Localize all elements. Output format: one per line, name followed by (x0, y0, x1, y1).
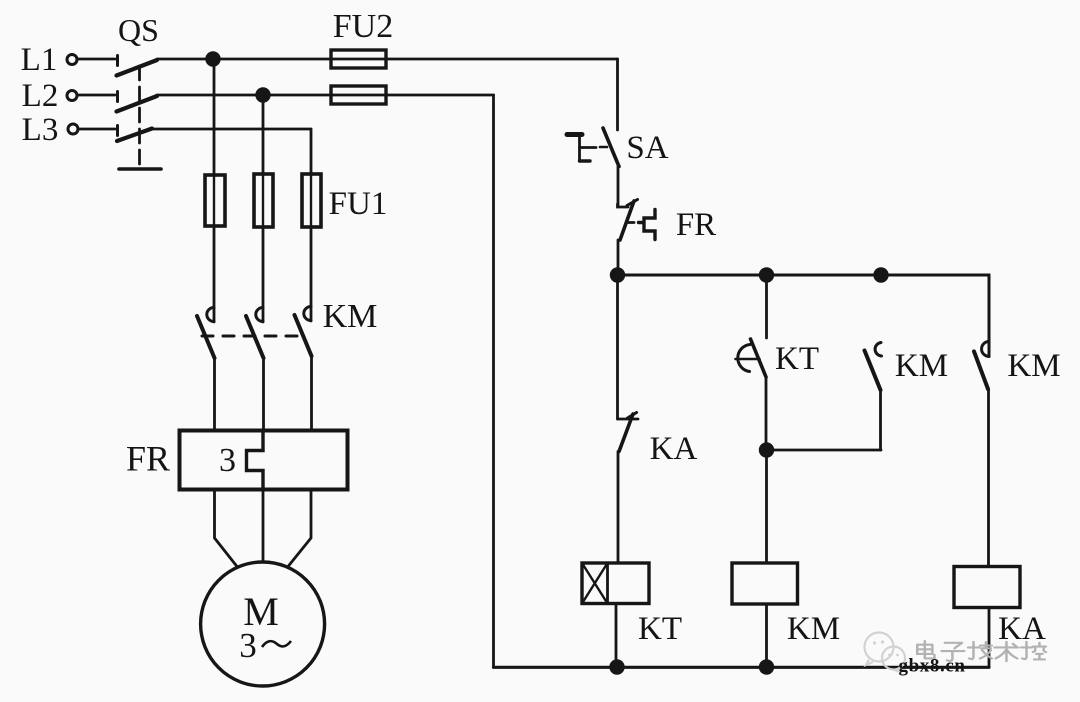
relay FR heater box (180, 431, 348, 490)
wire L1 bus to control corner (157, 58, 618, 61)
node bottom bus KT (611, 661, 624, 674)
wire SA to FR contact (617, 167, 620, 208)
contactor KM main pole 2 (246, 308, 264, 359)
watermark wechat logo (865, 633, 906, 673)
svg-text:FU2: FU2 (333, 8, 393, 45)
coil KT (time relay) (582, 563, 649, 604)
node top bus right (875, 269, 888, 282)
wire bottom bus (494, 666, 990, 669)
node junction L2 (257, 89, 270, 102)
svg-text:FU1: FU1 (329, 186, 388, 222)
motor M circle (201, 562, 325, 686)
switch QS pole 3 (117, 126, 152, 142)
wire FR to motor left (215, 490, 238, 567)
wire FR to motor right (288, 490, 311, 567)
fuse FU1 b (254, 174, 273, 227)
node mid (760, 444, 773, 457)
svg-text:KM: KM (1007, 348, 1060, 384)
svg-text:L3: L3 (22, 112, 59, 148)
node L1 terminal (67, 55, 77, 65)
wire phase B drop (262, 95, 265, 322)
svg-text:3: 3 (219, 442, 236, 479)
switch QS bar (119, 167, 161, 171)
fuse FU1 a (205, 175, 225, 226)
svg-text:KM: KM (787, 611, 840, 647)
contactor KM linkage dashed (202, 335, 302, 338)
contactor KM main pole 1 (197, 308, 215, 359)
wire FR to motor mid (262, 490, 265, 563)
watermark text dian (electron) (917, 641, 1046, 661)
svg-text:FR: FR (676, 207, 716, 243)
wire pole3 to FR (310, 355, 313, 430)
svg-text:KA: KA (650, 431, 698, 467)
contact FR thermal NC (618, 200, 638, 241)
svg-text:3: 3 (239, 626, 257, 665)
switch QS pole 1 (117, 56, 158, 76)
node junction L1 (207, 53, 220, 66)
node L3 terminal (68, 124, 78, 134)
contact KA NC (618, 413, 639, 452)
contact KT delayed NO (736, 339, 767, 377)
wire branch2 to KM coil (765, 450, 768, 563)
wire branch3 down (879, 390, 882, 450)
fuse FU1 c (302, 174, 321, 227)
svg-text:L2: L2 (22, 78, 59, 114)
wire L1 lead (79, 58, 116, 61)
fuse FU2 upper (331, 50, 386, 68)
node L2 terminal (67, 91, 77, 101)
svg-text:KT: KT (638, 611, 682, 647)
wire KA contact to KT coil (617, 452, 620, 564)
watermark text shu (art) (995, 642, 1019, 661)
fuse FU2 lower (331, 86, 386, 104)
watermark text ji (technique) (968, 642, 992, 659)
watermark text kong (control) (1021, 642, 1046, 659)
svg-text:FR: FR (126, 439, 170, 479)
wire L2 lead (79, 94, 116, 97)
wire branch4 to KA coil (987, 389, 990, 567)
wire control top bus (618, 275, 990, 357)
wire branch2 down (765, 275, 768, 338)
svg-text:SA: SA (626, 130, 668, 166)
wire pole1 to FR (213, 358, 216, 430)
wire pole2 to FR (262, 357, 265, 430)
wire L3 lead (80, 128, 116, 131)
switch SA manual operator (567, 135, 607, 162)
node control top-left (611, 269, 624, 282)
svg-text:L1: L1 (21, 42, 58, 78)
switch QS linkage dashed (138, 66, 141, 169)
switch QS pole 2 (117, 92, 158, 112)
coil KA (954, 567, 1020, 608)
contact KM aux branch3 (865, 343, 882, 391)
coil KM (732, 563, 798, 604)
wire KM coil to bottom bus (765, 604, 768, 667)
wire mid link (767, 449, 882, 452)
wire L2 to FU2 (157, 94, 494, 97)
relay FR heater glyph (639, 210, 656, 240)
svg-text:KM: KM (323, 298, 378, 335)
svg-text:QS: QS (118, 12, 159, 48)
wire KT coil to bottom bus (615, 604, 618, 668)
relay FR heater element (247, 431, 264, 490)
wire L2 leg down to bottom bus (492, 95, 495, 667)
wire branch1 down (616, 275, 619, 419)
contact KM aux branch4 (974, 342, 989, 390)
wire control left leg down (616, 59, 619, 130)
node top bus mid (760, 269, 773, 282)
wire KT contact to mid node (765, 377, 768, 450)
wire phase A drop (213, 59, 216, 322)
wire KA coil to bottom bus (988, 608, 991, 668)
watermark text zi (942, 643, 965, 661)
svg-text:KM: KM (895, 348, 948, 384)
contactor KM main pole 3 (295, 307, 312, 357)
svg-text:gbx8.cn: gbx8.cn (898, 656, 965, 677)
node bottom bus KM (760, 661, 773, 674)
wire phase C drop (310, 129, 313, 321)
wire FR contact to node (617, 240, 620, 275)
svg-text:KT: KT (775, 341, 819, 377)
wire L3 to drop (152, 128, 311, 131)
switch SA blade (603, 128, 619, 167)
